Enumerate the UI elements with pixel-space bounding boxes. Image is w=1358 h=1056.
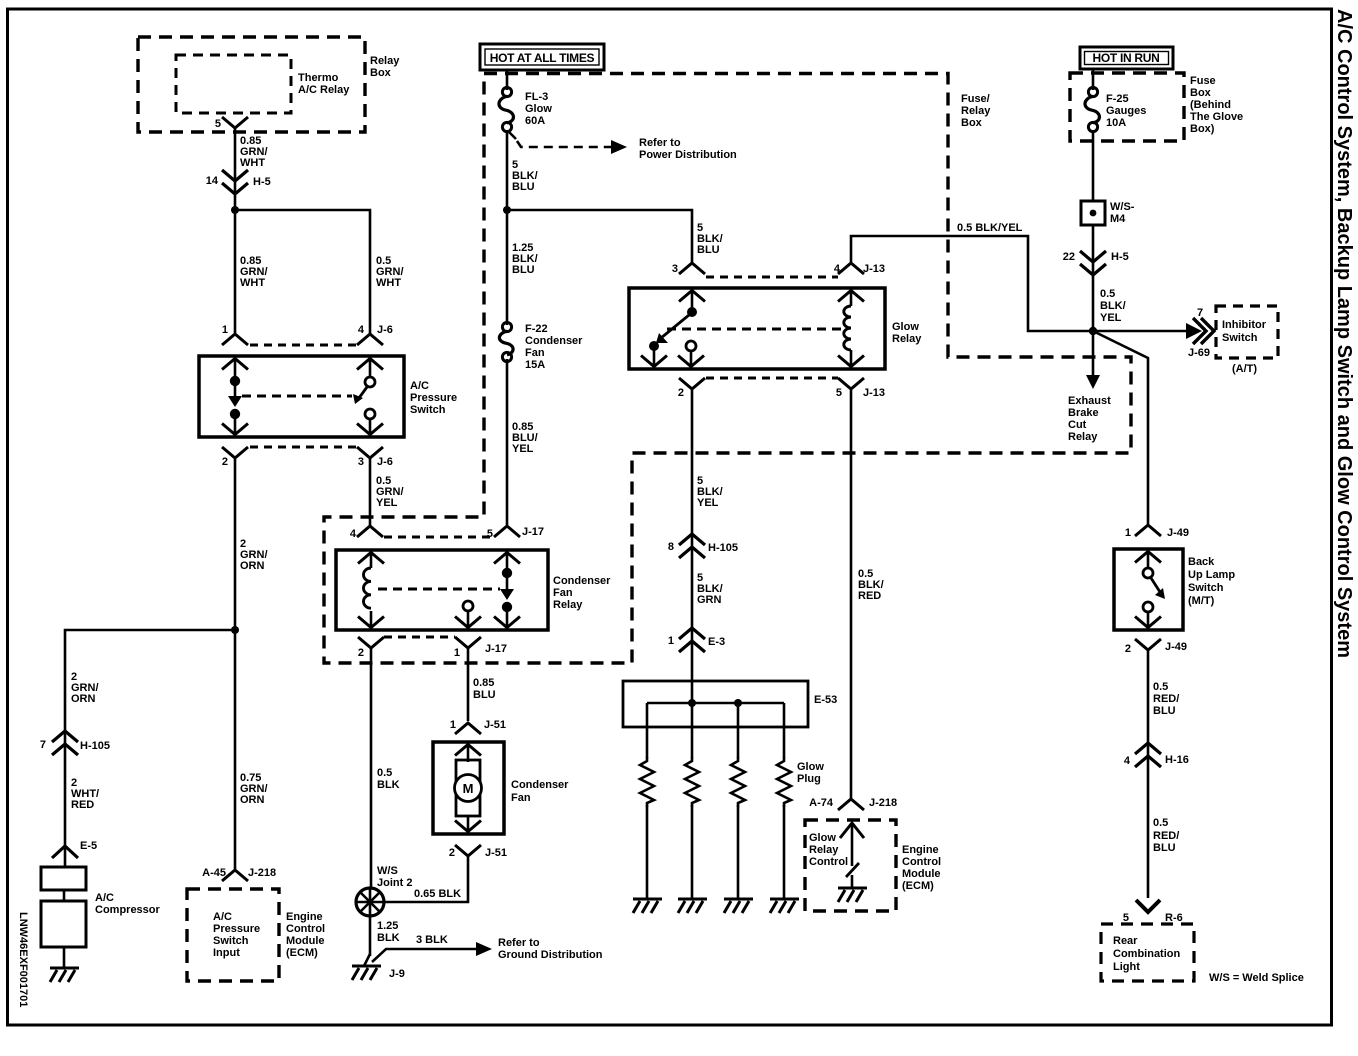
label W/S Joint 2 [377, 865, 412, 889]
svg-text:WHT: WHT [376, 277, 401, 289]
svg-text:0.5: 0.5 [1153, 817, 1168, 829]
connector J-51 pin 1 [450, 719, 506, 734]
wire 2 GRN/ORN pin 2 down [234, 459, 237, 630]
weld splice W/S-M4 [1081, 201, 1135, 225]
wire from J-51 pin 2 to weld splice [385, 857, 468, 902]
connector J-13 pin 5 [836, 378, 885, 399]
svg-text:Fuse: Fuse [1190, 75, 1216, 87]
inhibitor switch box (dashed) [1216, 306, 1278, 358]
svg-text:Glow: Glow [809, 832, 836, 844]
svg-text:0.5: 0.5 [377, 767, 392, 779]
svg-text:2: 2 [1125, 643, 1131, 655]
condenser fan relay contacts [455, 551, 520, 629]
connector J-17 pin 1 [454, 637, 507, 659]
svg-text:J-51: J-51 [484, 719, 506, 731]
svg-text:Plug: Plug [797, 773, 821, 785]
ECM A/C pressure switch input box (dashed) [187, 889, 279, 981]
svg-text:Fuse/: Fuse/ [961, 93, 990, 105]
svg-text:2: 2 [449, 847, 455, 859]
connector J-17 pin 4 [350, 526, 383, 540]
wire 3 BLK branch with arrow to ground distribution [372, 942, 492, 962]
svg-text:(Behind: (Behind [1190, 99, 1231, 111]
svg-text:Switch: Switch [410, 404, 446, 416]
svg-text:J-13: J-13 [863, 387, 885, 399]
svg-text:0.85: 0.85 [473, 677, 494, 689]
compressor ground wire [63, 947, 66, 967]
label 0.5 BLK [377, 767, 400, 791]
note W/S = Weld Splice [1209, 972, 1304, 984]
svg-text:4: 4 [358, 324, 365, 336]
connector J-13 lower dashed link [706, 377, 838, 380]
connector J-13 pin 4 [834, 263, 885, 275]
connector J-49 pin 2 [1125, 639, 1187, 655]
connector E-5 [52, 840, 97, 858]
label Thermo A/C Relay [298, 72, 350, 96]
label Fuse/Relay Box [961, 93, 991, 129]
svg-text:Brake: Brake [1068, 407, 1099, 419]
connector J-6 pin 1 [222, 324, 248, 345]
svg-text:H-16: H-16 [1165, 754, 1189, 766]
fuse F-22 Condenser Fan 15A [499, 322, 583, 371]
svg-text:Thermo: Thermo [298, 72, 339, 84]
svg-text:GRN: GRN [697, 594, 722, 606]
svg-text:7: 7 [40, 739, 46, 751]
svg-text:Joint 2: Joint 2 [377, 877, 412, 889]
connector J-17 pin 2 [358, 637, 384, 659]
svg-text:RED: RED [858, 590, 881, 602]
wire from M4 to H-5 [1092, 225, 1095, 331]
svg-text:E-53: E-53 [814, 694, 837, 706]
svg-text:A/C: A/C [213, 911, 232, 923]
label Relay Box [370, 55, 400, 79]
svg-text:Engine: Engine [902, 844, 939, 856]
E-53 connector box [623, 681, 837, 727]
svg-text:A/C Control System, Backup Lam: A/C Control System, Backup Lamp Switch a… [1333, 9, 1355, 658]
svg-text:(M/T): (M/T) [1188, 595, 1215, 607]
label 0.85 GRN/WHT [240, 255, 268, 289]
svg-text:3: 3 [672, 263, 678, 275]
label Engine Control Module (ECM) [902, 844, 941, 892]
svg-text:BLU: BLU [473, 689, 496, 701]
svg-text:(ECM): (ECM) [286, 947, 318, 959]
glow relay switch contacts [641, 289, 705, 368]
svg-text:YEL: YEL [697, 497, 719, 509]
glow plug 1 [633, 703, 662, 913]
label A/C Pressure Switch [410, 380, 457, 416]
svg-text:Input: Input [213, 947, 240, 959]
svg-text:1: 1 [1125, 527, 1131, 539]
back up lamp switch contacts [1135, 550, 1165, 629]
label 0.75 GRN/ORN [240, 772, 268, 806]
svg-text:A/C: A/C [410, 380, 429, 392]
condenser fan relay mechanical dashed link [378, 588, 500, 591]
fuse F-25 Gauges 10A [1085, 87, 1146, 131]
svg-text:Up Lamp: Up Lamp [1188, 569, 1235, 581]
svg-text:RED: RED [71, 799, 94, 811]
svg-text:YEL: YEL [1100, 312, 1122, 324]
svg-text:H-105: H-105 [708, 542, 738, 554]
fuse box behind glove box (dashed) [1070, 73, 1184, 141]
svg-text:A-74: A-74 [809, 797, 834, 809]
connector J-13 pin 2 [678, 378, 705, 399]
HOT AT ALL TIMES header box [480, 44, 604, 70]
glow relay box [629, 288, 885, 369]
svg-text:J-6: J-6 [377, 324, 393, 336]
svg-text:Fan: Fan [511, 792, 531, 804]
svg-text:R-6: R-6 [1165, 912, 1183, 924]
condenser fan motor [455, 743, 482, 833]
ground (A/C compressor) [50, 968, 79, 982]
arrow and connector J-69 pin 7 into inhibitor switch [1186, 307, 1214, 359]
svg-text:Module: Module [902, 868, 941, 880]
svg-text:Module: Module [286, 935, 325, 947]
svg-text:J-51: J-51 [485, 847, 507, 859]
svg-text:Pressure: Pressure [213, 923, 260, 935]
glow plug 2 [678, 703, 707, 913]
fuse FL-3 Glow 60A [499, 87, 552, 131]
label Back Up Lamp Switch (M/T) [1188, 556, 1235, 607]
ECM internal wire with up arrow and ground [838, 822, 867, 902]
svg-text:H-105: H-105 [80, 740, 110, 752]
label Glow Relay [892, 321, 922, 345]
connector H-16 pin 4 [1124, 743, 1189, 767]
label A/C Pressure Switch Input [213, 911, 260, 959]
svg-text:F-25: F-25 [1106, 93, 1129, 105]
svg-text:Control: Control [809, 856, 848, 868]
label 5 BLK/GRN [697, 572, 723, 606]
svg-text:Combination: Combination [1113, 948, 1180, 960]
label Inhibitor Switch [1222, 319, 1267, 344]
svg-text:J-9: J-9 [389, 968, 405, 980]
svg-text:J-218: J-218 [869, 797, 897, 809]
svg-text:Engine: Engine [286, 911, 323, 923]
wire branch to compressor [65, 630, 235, 845]
A/C pressure switch box [199, 356, 404, 437]
svg-text:1: 1 [668, 635, 674, 647]
connector J-51 pin 2 [449, 845, 507, 859]
wire 0.5 RED/BLU down [1147, 651, 1150, 898]
svg-text:5: 5 [836, 387, 842, 399]
label Refer to Ground Distribution [498, 937, 603, 961]
label Fuse Box (Behind The Glove Box) [1190, 75, 1243, 135]
connector J-17 upper dashed link [384, 536, 493, 539]
svg-text:Inhibitor: Inhibitor [1222, 319, 1267, 331]
wire 0.85 BLU pin 1 down [467, 649, 470, 721]
wire 0.85 BLU/YEL to J-17 pin 5 [506, 359, 509, 525]
wire split horizontal [235, 210, 370, 333]
svg-text:Relay: Relay [892, 333, 922, 345]
connector H-105 pin 8 [668, 534, 738, 558]
condenser fan motor box [433, 742, 504, 834]
svg-text:A/C Relay: A/C Relay [298, 84, 350, 96]
connector J-6 pin 4 [357, 324, 393, 345]
svg-text:J-218: J-218 [248, 867, 276, 879]
label 0.85 BLU [473, 677, 496, 701]
svg-text:4: 4 [1124, 755, 1131, 767]
label 5 BLK/BLU [512, 159, 538, 193]
connector H-105 pin 7 [40, 731, 110, 755]
connector A-74 / J-218 [809, 797, 897, 810]
svg-text:0.5: 0.5 [1153, 681, 1168, 693]
wire from HOT AT ALL TIMES to fuse FL-3 [506, 70, 509, 90]
relay box (dashed) [138, 37, 365, 132]
svg-text:WHT: WHT [240, 157, 265, 169]
svg-text:Condenser: Condenser [525, 335, 583, 347]
svg-text:1.25: 1.25 [377, 920, 398, 932]
svg-text:15A: 15A [525, 359, 545, 371]
back up lamp switch box [1114, 549, 1183, 630]
svg-text:Relay: Relay [961, 105, 991, 117]
connector J-6 body dashed link [250, 344, 356, 347]
ECM glow relay control box (dashed) [805, 820, 896, 911]
svg-text:WHT: WHT [240, 277, 265, 289]
svg-text:2: 2 [678, 387, 684, 399]
svg-text:RED/: RED/ [1153, 693, 1179, 705]
svg-text:M4: M4 [1110, 213, 1126, 225]
svg-text:3: 3 [358, 456, 364, 468]
label 2 WHT/RED [71, 777, 99, 811]
wire 0.5 BLK pin 2 down to weld splice [370, 649, 373, 889]
junction node to glow relay feed [503, 206, 511, 214]
svg-text:Glow: Glow [525, 103, 552, 115]
svg-text:Exhaust: Exhaust [1068, 395, 1111, 407]
label 0.85 BLU/YEL [512, 421, 538, 455]
dashed arrow refer to power distribution [509, 132, 627, 154]
svg-text:Box: Box [1190, 87, 1212, 99]
E-53 internal bus [647, 699, 784, 707]
label 5 BLK/YEL [697, 475, 723, 509]
svg-text:Relay: Relay [553, 599, 583, 611]
svg-text:Refer to: Refer to [498, 937, 540, 949]
junction node at compressor branch [231, 626, 239, 634]
svg-text:Condenser: Condenser [553, 575, 611, 587]
connector J-13 upper dashed link [706, 276, 838, 279]
label 1.25 BLK [377, 920, 400, 944]
svg-text:BLU: BLU [512, 264, 535, 276]
svg-text:The Glove: The Glove [1190, 111, 1243, 123]
label Exhaust Brake Cut Relay [1068, 395, 1111, 443]
svg-text:Cut: Cut [1068, 419, 1087, 431]
svg-text:ORN: ORN [240, 794, 265, 806]
svg-text:2: 2 [358, 647, 364, 659]
label Rear Combination Light [1113, 935, 1180, 973]
svg-text:W/S-: W/S- [1110, 201, 1135, 213]
svg-text:A-45: A-45 [202, 867, 226, 879]
svg-text:4: 4 [834, 263, 841, 275]
svg-text:H-5: H-5 [253, 176, 271, 188]
wire from HOT IN RUN to fuse F-25 [1092, 69, 1095, 90]
svg-text:1: 1 [222, 324, 228, 336]
label 0.5 GRN/YEL [376, 475, 404, 509]
svg-text:10A: 10A [1106, 117, 1126, 129]
wire 1.25 BLK below splice [369, 916, 372, 956]
svg-text:W/S = Weld Splice: W/S = Weld Splice [1209, 972, 1304, 984]
svg-text:Control: Control [286, 923, 325, 935]
connector J-13 pin 3 [672, 263, 705, 275]
glow relay coil [838, 289, 864, 368]
svg-text:0.5 BLK/YEL: 0.5 BLK/YEL [957, 222, 1023, 234]
svg-text:Fan: Fan [525, 347, 545, 359]
glow plug 4 [770, 703, 799, 913]
wire to glow relay pin 3 [507, 210, 692, 262]
svg-text:0.65 BLK: 0.65 BLK [414, 888, 461, 900]
label Glow Relay Control [809, 832, 848, 868]
svg-text:Fan: Fan [553, 587, 573, 599]
svg-text:J-6: J-6 [377, 456, 393, 468]
svg-text:2: 2 [222, 456, 228, 468]
arrow down to exhaust brake cut relay [1086, 331, 1100, 389]
svg-text:ORN: ORN [240, 560, 265, 572]
svg-text:Rear: Rear [1113, 935, 1138, 947]
label 5 BLK/BLU (right branch) [697, 222, 723, 256]
svg-text:Glow: Glow [797, 761, 824, 773]
A/C compressor body [41, 867, 86, 947]
pin 5 of thermo relay [215, 117, 248, 130]
wire from F-25 to weld splice M4 [1092, 130, 1095, 201]
svg-text:Box: Box [370, 67, 392, 79]
pressure switch internals right (pins 4-3 switch) [353, 357, 383, 436]
svg-text:Gauges: Gauges [1106, 105, 1146, 117]
label 3 BLK [416, 934, 448, 946]
svg-text:HOT AT ALL TIMES: HOT AT ALL TIMES [490, 51, 595, 65]
junction node at 0.5 BLK/YEL cross [1089, 327, 1097, 335]
wire 0.75 GRN/ORN down to A-45 [234, 630, 237, 869]
label A/C Compressor [95, 892, 161, 916]
wire 0.5 BLK/YEL from pin 4 to inhibitor run [851, 236, 1191, 331]
svg-text:BLU: BLU [697, 244, 720, 256]
svg-text:HOT IN RUN: HOT IN RUN [1093, 51, 1160, 65]
label Refer to Power Distribution [639, 137, 737, 161]
connector J-6 pin 2 [222, 447, 248, 468]
svg-text:BLU: BLU [512, 181, 535, 193]
label 2 GRN/ORN [71, 671, 99, 705]
svg-text:Compressor: Compressor [95, 904, 161, 916]
connector J-6 lower dashed link [250, 446, 356, 449]
condenser fan relay coil [358, 551, 384, 629]
svg-text:Switch: Switch [213, 935, 249, 947]
diagonal into ground J-9 [364, 954, 370, 966]
wire 5 BLK/BLU below FL-3 [506, 130, 509, 325]
label 0.5 RED/BLU [1153, 681, 1179, 717]
svg-text:5: 5 [1123, 912, 1129, 924]
label 0.5 BLK/YEL [1100, 288, 1126, 324]
label Condenser Fan [511, 779, 569, 804]
svg-text:YEL: YEL [512, 443, 534, 455]
condenser fan relay box [336, 550, 548, 630]
svg-text:LNW46EXF001701: LNW46EXF001701 [17, 912, 29, 1007]
svg-text:J-49: J-49 [1167, 527, 1189, 539]
svg-text:J-17: J-17 [485, 643, 507, 655]
svg-text:Refer to: Refer to [639, 137, 681, 149]
svg-text:BLU: BLU [1153, 705, 1176, 717]
label 0.5 BLK/RED [858, 568, 884, 602]
pressure switch internals left (pins 1-2 contact) [222, 357, 248, 436]
svg-text:J-49: J-49 [1165, 641, 1187, 653]
junction node below H-5 [231, 206, 239, 214]
svg-text:Control: Control [902, 856, 941, 868]
label Glow Plug [797, 761, 824, 785]
label 0.5 BLK/YEL horizontal [957, 222, 1023, 234]
svg-text:4: 4 [350, 528, 357, 540]
wire 0.85 GRN/WHT from pin 5 to H-5 [234, 127, 237, 210]
connector H-5 pin 14 [206, 170, 271, 194]
wire glow relay pin 2 down to E-53 [691, 390, 694, 703]
svg-text:1: 1 [454, 647, 460, 659]
svg-text:Pressure: Pressure [410, 392, 457, 404]
svg-text:Box: Box [961, 117, 983, 129]
svg-text:J-69: J-69 [1188, 347, 1210, 359]
svg-text:Glow: Glow [892, 321, 919, 333]
svg-text:14: 14 [206, 175, 219, 187]
connector J-6 pin 3 [357, 447, 393, 468]
label (A/T) [1232, 363, 1257, 375]
svg-text:(A/T): (A/T) [1232, 363, 1257, 375]
glow plug 3 [724, 703, 753, 913]
connector E-3 pin 1 [668, 628, 725, 652]
weld splice W/S Joint 2 [356, 888, 384, 916]
pressure switch mechanical dashed link [242, 395, 352, 398]
glow relay mechanical dashed link [667, 328, 843, 331]
svg-text:60A: 60A [525, 115, 545, 127]
fuse/relay box outline (dashed polygon) [324, 74, 1131, 664]
svg-text:Relay: Relay [1068, 431, 1098, 443]
svg-text:A/C: A/C [95, 892, 114, 904]
svg-text:1: 1 [450, 719, 456, 731]
thermo A/C relay (inner dashed box) [176, 55, 291, 113]
svg-text:RED/: RED/ [1153, 830, 1179, 842]
svg-text:(ECM): (ECM) [902, 880, 934, 892]
connector H-5 pin 22 [1063, 251, 1129, 275]
connector J-17 lower dashed link [384, 636, 455, 639]
connector J-17 pin 5 [487, 526, 544, 540]
svg-text:FL-3: FL-3 [525, 91, 548, 103]
svg-text:Box): Box) [1190, 123, 1215, 135]
svg-text:5: 5 [215, 118, 221, 130]
svg-text:Light: Light [1113, 961, 1140, 973]
svg-text:22: 22 [1063, 251, 1075, 263]
label 0.85 GRN/WHT [240, 135, 268, 169]
label Engine Control Module (ECM) [286, 911, 325, 959]
svg-text:ORN: ORN [71, 693, 96, 705]
svg-text:Relay: Relay [809, 844, 839, 856]
svg-text:Power Distribution: Power Distribution [639, 149, 737, 161]
HOT IN RUN header box [1080, 47, 1173, 69]
svg-text:M: M [463, 781, 474, 796]
svg-text:H-5: H-5 [1111, 251, 1129, 263]
label 0.65 BLK [414, 888, 461, 900]
svg-text:F-22: F-22 [525, 323, 548, 335]
svg-text:E-3: E-3 [708, 636, 725, 648]
diagonal wire to back up lamp switch [1095, 332, 1148, 524]
svg-text:E-5: E-5 [80, 840, 97, 852]
label 0.5 RED/BLU lower [1153, 817, 1179, 854]
label 0.5 GRN/WHT [376, 255, 404, 289]
connector R-6 pin 5 arrow [1123, 900, 1183, 924]
svg-text:8: 8 [668, 541, 674, 553]
wire glow relay pin 5 down to A-74 [850, 390, 853, 798]
svg-text:J-17: J-17 [522, 526, 544, 538]
svg-text:BLK: BLK [377, 932, 400, 944]
label 2 GRN/ORN [240, 538, 268, 572]
svg-text:0.5: 0.5 [1100, 288, 1115, 300]
svg-text:3 BLK: 3 BLK [416, 934, 448, 946]
svg-text:YEL: YEL [376, 497, 398, 509]
connector A-45 / J-218 [202, 867, 276, 881]
wire 0.5 GRN/YEL pin 3 down [369, 459, 372, 525]
svg-text:J-13: J-13 [863, 263, 885, 275]
svg-text:7: 7 [1197, 307, 1203, 319]
svg-text:Switch: Switch [1222, 332, 1258, 344]
